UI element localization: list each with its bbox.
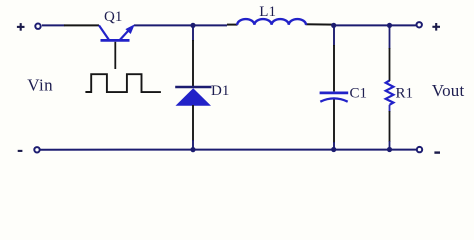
svg-text:Vin: Vin <box>27 76 53 95</box>
svg-text:Vout: Vout <box>432 81 465 100</box>
svg-text:Q1: Q1 <box>104 9 122 25</box>
svg-text:D1: D1 <box>211 83 229 99</box>
svg-text:R1: R1 <box>396 85 414 101</box>
svg-text:C1: C1 <box>350 85 368 101</box>
svg-text:L1: L1 <box>259 4 276 20</box>
